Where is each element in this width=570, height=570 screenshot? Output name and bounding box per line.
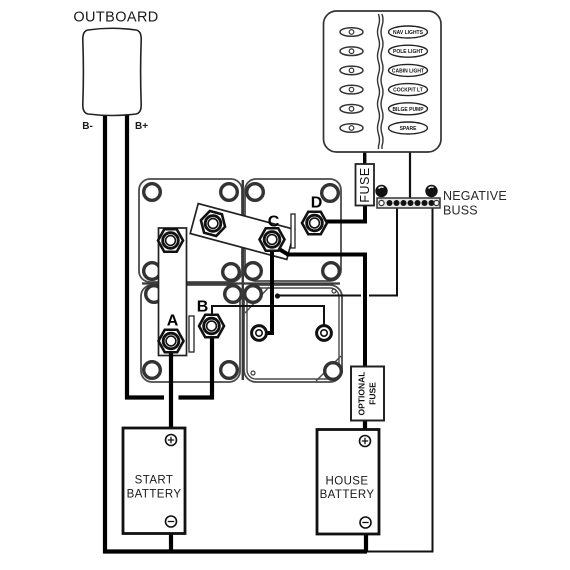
wire: negative buss right riser down to bottom bus [367,208,433,552]
relay VSR plate [244,285,342,382]
panel rocker switches [340,28,363,133]
hex nut on diagonal bar (left) [198,209,228,237]
outboard motor [83,28,141,115]
label NEGATIVE BUSS [443,189,507,218]
svg-text:BATTERY: BATTERY [320,489,375,501]
wire: terminal A to start battery + [169,341,173,436]
fuse box [356,164,375,206]
svg-text:BUSS: BUSS [443,204,478,218]
switch panel [324,11,442,152]
wire: outboard B- to bottom bus [105,112,367,552]
svg-text:FUSE: FUSE [368,382,378,405]
house battery [317,430,379,535]
wire: negative buss to relay sense (left riser) [279,208,397,296]
jumper bar at A [189,316,194,352]
panel switch labels [389,26,428,134]
svg-text:HOUSE: HOUSE [326,476,369,488]
start battery [123,428,185,534]
svg-text:POLE LIGHT: POLE LIGHT [393,49,423,55]
hex nut terminal A [159,330,184,353]
wire: B sense thin wire from terminal B to relay right terminal [212,306,324,330]
svg-text:FUSE: FUSE [358,167,372,202]
wire: terminal C to relay left terminal [260,244,272,333]
wire: panel to fuse [363,151,366,165]
relay sense dot [275,293,280,298]
hex nut terminal B [199,315,224,338]
relay left terminal [252,326,267,341]
svg-text:OUTBOARD: OUTBOARD [73,10,158,26]
battery switch plate BL [141,285,241,382]
svg-text:BATTERY: BATTERY [127,489,182,501]
battery switch plate TL [139,179,242,282]
svg-text:NEGATIVE: NEGATIVE [443,189,507,203]
svg-text:B+: B+ [135,121,148,132]
wire: terminal C to optional fuse [274,246,365,367]
busbar vertical white bar [159,228,187,356]
plate shared edge vertical [242,180,244,380]
svg-text:D: D [311,195,323,212]
svg-text:B: B [197,299,209,316]
wire: start battery - to bottom bus [169,526,173,552]
svg-text:NAV LIGHTS: NAV LIGHTS [393,30,424,36]
plate shared edge horizontal [142,282,340,284]
hex nut terminal C [260,228,285,251]
svg-text:OPTIONAL: OPTIONAL [357,372,367,416]
svg-text:BILGE PUMP: BILGE PUMP [392,107,424,113]
hex nut terminal D [302,212,327,235]
svg-text:A: A [167,313,179,330]
wire: terminal D to fuse [314,205,365,222]
svg-text:SPARE: SPARE [400,126,418,132]
svg-text:COCKPIT LT: COCKPIT LT [393,88,423,94]
wire: house battery - to bottom bus [364,527,368,552]
negative buss bar [375,185,440,208]
battery switch plate TR [245,179,341,281]
svg-text:B-: B- [82,121,93,132]
svg-text:START: START [135,475,174,487]
optional fuse box [351,367,384,421]
relay right terminal [317,326,332,341]
hex nut terminal on top of vertical bar [158,229,183,252]
wire: optional fuse to house battery + [363,420,367,436]
jumper bar at C/D [291,214,295,248]
svg-text:C: C [268,214,280,231]
svg-text:CABIN LIGHT: CABIN LIGHT [392,68,424,74]
busbar diagonal white bar [190,204,295,260]
wire: panel to negative buss [409,151,411,200]
wire: outboard B+ down and right to terminal B [127,112,212,398]
